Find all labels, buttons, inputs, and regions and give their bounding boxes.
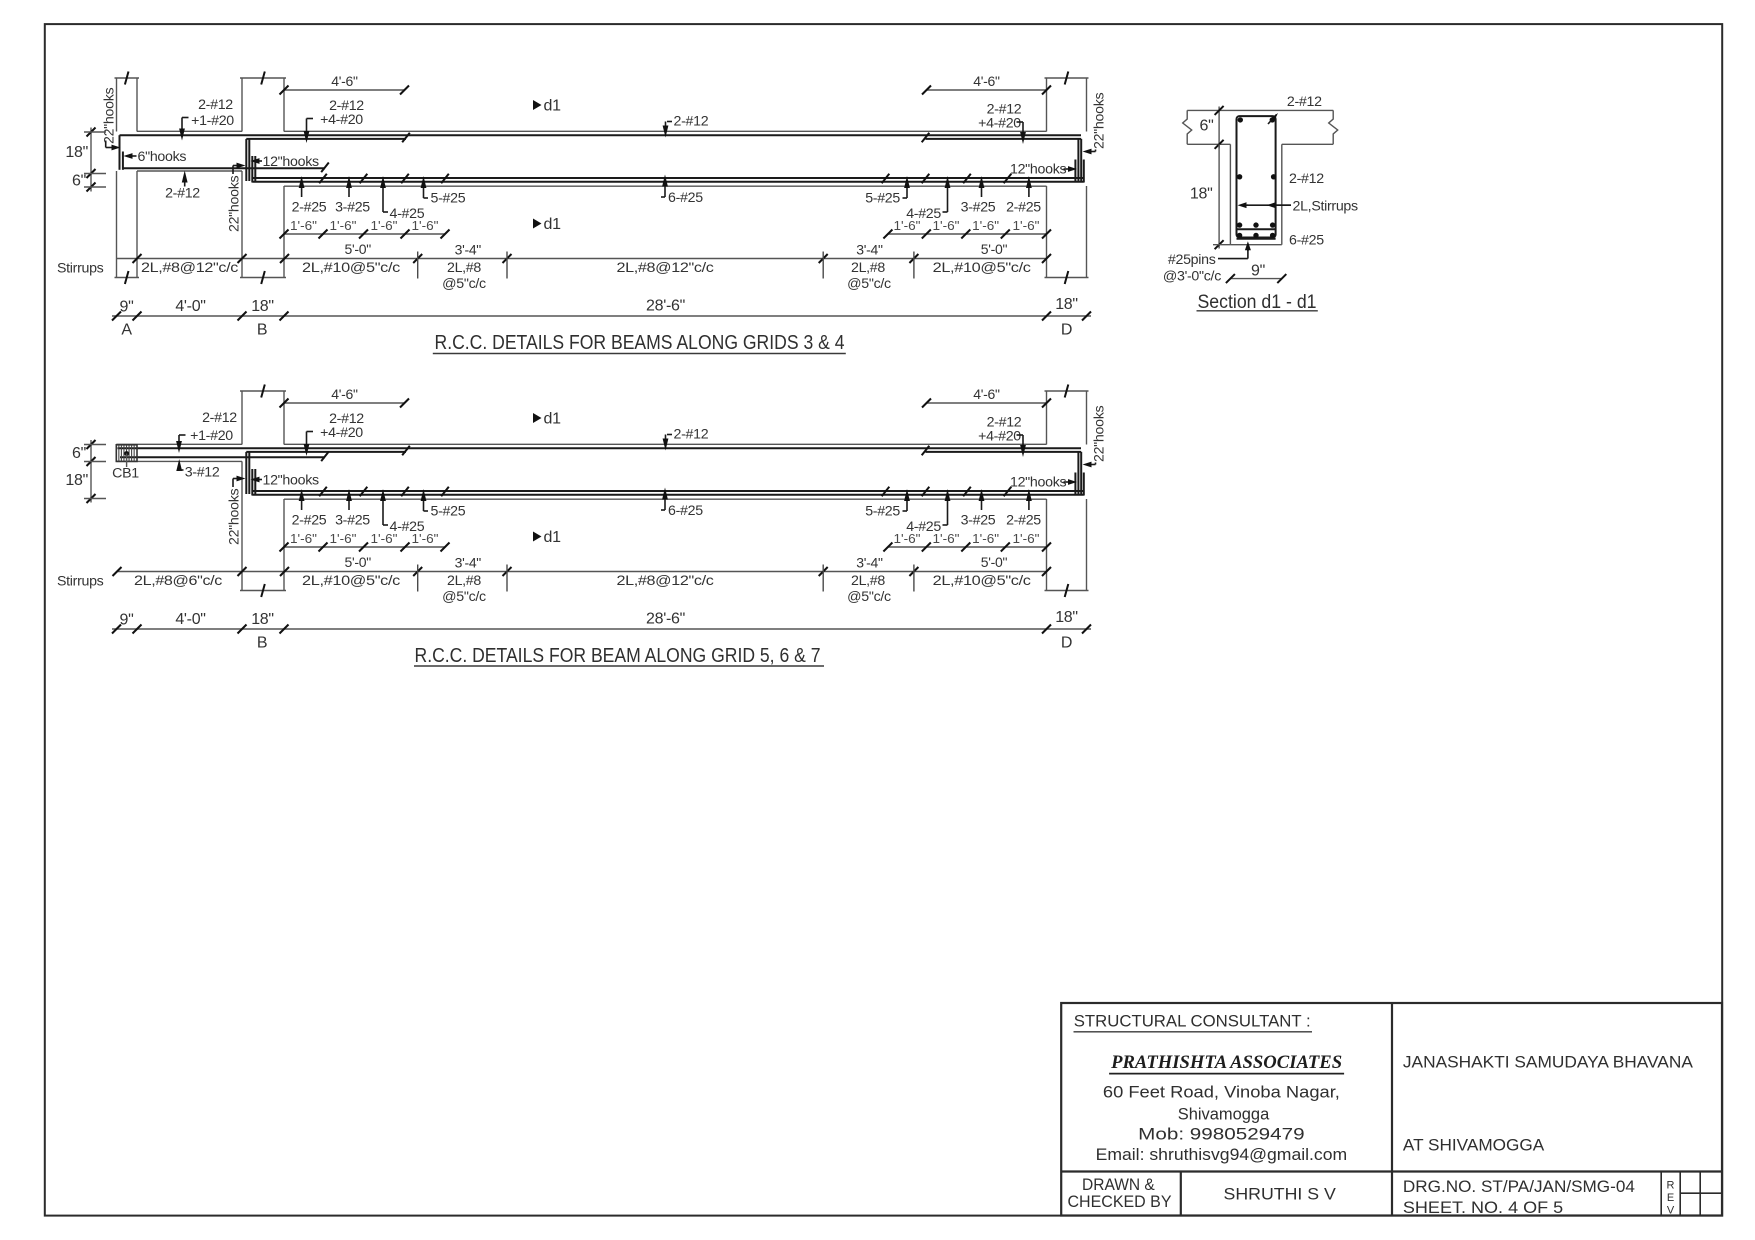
svg-text:18": 18" (1055, 609, 1078, 626)
svg-text:1'-6": 1'-6" (972, 532, 999, 546)
svg-text:1'-6": 1'-6" (371, 219, 398, 233)
svg-text:2L,Stirrups: 2L,Stirrups (1293, 199, 1359, 215)
svg-text:SHRUTHI S V: SHRUTHI S V (1224, 1185, 1337, 1204)
svg-text:2-#25: 2-#25 (1006, 513, 1041, 529)
svg-text:12"hooks: 12"hooks (263, 154, 319, 170)
svg-text:3'-4": 3'-4" (455, 555, 482, 571)
svg-text:6-#25: 6-#25 (668, 503, 703, 519)
svg-text:Email: shruthisvg94@gmail.com: Email: shruthisvg94@gmail.com (1096, 1145, 1348, 1164)
svg-text:@5"c/c: @5"c/c (442, 589, 486, 605)
svg-text:1'-6": 1'-6" (933, 219, 960, 233)
svg-text:Stirrups: Stirrups (57, 574, 104, 590)
svg-text:18": 18" (1055, 296, 1078, 313)
svg-text:2L,#8@6"c/c: 2L,#8@6"c/c (134, 573, 222, 589)
svg-text:1'-6": 1'-6" (290, 532, 317, 546)
svg-text:1'-6": 1'-6" (1013, 219, 1040, 233)
svg-text:2L,#8: 2L,#8 (851, 260, 885, 276)
svg-text:1'-6": 1'-6" (894, 219, 921, 233)
svg-text:1'-6": 1'-6" (972, 219, 999, 233)
svg-text:+4-#20: +4-#20 (320, 112, 363, 128)
svg-text:D: D (1061, 322, 1072, 339)
svg-text:V: V (1667, 1205, 1675, 1217)
svg-text:1'-6": 1'-6" (412, 532, 439, 546)
svg-text:d1: d1 (544, 98, 562, 115)
svg-text:@5"c/c: @5"c/c (847, 589, 891, 605)
svg-text:2-#12: 2-#12 (165, 186, 200, 202)
svg-text:1'-6": 1'-6" (330, 219, 357, 233)
svg-text:CHECKED BY: CHECKED BY (1068, 1192, 1172, 1211)
svg-text:18": 18" (1190, 185, 1213, 202)
svg-text:1'-6": 1'-6" (371, 532, 398, 546)
svg-text:+1-#20: +1-#20 (191, 113, 234, 129)
svg-text:2L,#8: 2L,#8 (447, 260, 481, 276)
svg-text:5-#25: 5-#25 (865, 191, 900, 207)
svg-text:12"hooks: 12"hooks (1010, 475, 1066, 491)
svg-text:1'-6": 1'-6" (1013, 532, 1040, 546)
svg-text:18": 18" (65, 144, 88, 161)
svg-text:@3'-0"c/c: @3'-0"c/c (1163, 269, 1221, 285)
svg-text:5'-0": 5'-0" (345, 554, 372, 570)
svg-text:4'-6": 4'-6" (973, 386, 1000, 402)
svg-text:2L,#8@12"c/c: 2L,#8@12"c/c (141, 260, 238, 276)
svg-text:AT SHIVAMOGGA: AT SHIVAMOGGA (1403, 1136, 1545, 1155)
svg-text:E: E (1667, 1192, 1674, 1204)
svg-text:4'-6": 4'-6" (331, 73, 358, 89)
svg-text:2L,#8: 2L,#8 (447, 573, 481, 589)
svg-text:5'-0": 5'-0" (345, 241, 372, 257)
svg-text:PRATHISHTA ASSOCIATES: PRATHISHTA ASSOCIATES (1110, 1052, 1342, 1073)
svg-text:+1-#20: +1-#20 (190, 428, 233, 444)
svg-text:5'-0": 5'-0" (981, 241, 1008, 257)
svg-text:2-#25: 2-#25 (292, 200, 327, 216)
svg-text:DRG.NO. ST/PA/JAN/SMG-04: DRG.NO. ST/PA/JAN/SMG-04 (1403, 1177, 1635, 1196)
svg-text:18": 18" (251, 298, 274, 315)
svg-text:B: B (257, 635, 267, 652)
svg-text:6": 6" (72, 445, 86, 462)
svg-text:2L,#8@12"c/c: 2L,#8@12"c/c (617, 573, 714, 589)
svg-text:9": 9" (120, 299, 134, 316)
svg-text:#25pins: #25pins (1168, 252, 1216, 268)
svg-text:2-#12: 2-#12 (674, 114, 709, 130)
svg-text:2-#12: 2-#12 (1289, 171, 1324, 187)
svg-text:6": 6" (1200, 118, 1214, 135)
svg-text:2L,#10@5"c/c: 2L,#10@5"c/c (302, 260, 400, 276)
svg-text:@5"c/c: @5"c/c (442, 276, 486, 292)
svg-text:Shivamogga: Shivamogga (1178, 1104, 1270, 1123)
svg-text:R.C.C. DETAILS FOR BEAM ALONG: R.C.C. DETAILS FOR BEAM ALONG GRID 5, 6 … (415, 645, 821, 667)
svg-text:22"hooks: 22"hooks (1092, 93, 1108, 149)
svg-text:1'-6": 1'-6" (412, 219, 439, 233)
svg-text:12"hooks: 12"hooks (263, 473, 319, 489)
svg-text:2-#25: 2-#25 (292, 513, 327, 529)
svg-text:SHEET. NO. 4 OF 5: SHEET. NO. 4 OF 5 (1403, 1198, 1563, 1217)
svg-text:3-#12: 3-#12 (185, 465, 220, 481)
svg-text:1'-6": 1'-6" (290, 219, 317, 233)
svg-text:+4-#20: +4-#20 (320, 425, 363, 441)
svg-text:3-#25: 3-#25 (961, 513, 996, 529)
svg-text:Mob: 9980529479: Mob: 9980529479 (1138, 1124, 1304, 1143)
svg-text:3-#25: 3-#25 (335, 513, 370, 529)
svg-text:4'-0": 4'-0" (175, 611, 205, 628)
svg-text:1'-6": 1'-6" (933, 532, 960, 546)
svg-text:Section d1 - d1: Section d1 - d1 (1198, 292, 1317, 313)
svg-text:B: B (257, 322, 267, 339)
svg-text:+4-#20: +4-#20 (978, 429, 1021, 445)
svg-text:3'-4": 3'-4" (856, 555, 883, 571)
svg-text:Stirrups: Stirrups (57, 261, 104, 277)
svg-text:18": 18" (251, 611, 274, 628)
svg-text:@5"c/c: @5"c/c (847, 276, 891, 292)
svg-text:5-#25: 5-#25 (431, 504, 466, 520)
svg-text:JANASHAKTI SAMUDAYA BHAVANA: JANASHAKTI SAMUDAYA BHAVANA (1403, 1053, 1694, 1072)
svg-text:d1: d1 (544, 411, 562, 428)
svg-text:60 Feet Road, Vinoba Nagar,: 60 Feet Road, Vinoba Nagar, (1103, 1083, 1340, 1102)
svg-text:A: A (121, 322, 132, 339)
svg-text:1'-6": 1'-6" (894, 532, 921, 546)
svg-text:9": 9" (120, 612, 134, 629)
svg-text:22"hooks: 22"hooks (102, 88, 118, 144)
svg-text:22"hooks: 22"hooks (1092, 406, 1108, 462)
svg-text:2L,#10@5"c/c: 2L,#10@5"c/c (302, 573, 400, 589)
svg-text:6"hooks: 6"hooks (138, 149, 187, 165)
svg-text:4'-6": 4'-6" (331, 386, 358, 402)
svg-text:6": 6" (72, 173, 86, 190)
svg-text:12"hooks: 12"hooks (1010, 162, 1066, 178)
svg-text:28'-6": 28'-6" (646, 298, 685, 315)
svg-text:R: R (1667, 1180, 1675, 1192)
svg-text:2-#12: 2-#12 (198, 97, 233, 113)
svg-text:2-#12: 2-#12 (674, 427, 709, 443)
svg-text:2-#12: 2-#12 (1287, 94, 1322, 110)
svg-text:2-#12: 2-#12 (202, 410, 237, 426)
svg-text:4'-0": 4'-0" (175, 298, 205, 315)
svg-text:5-#25: 5-#25 (431, 191, 466, 207)
svg-text:6-#25: 6-#25 (668, 190, 703, 206)
svg-text:3-#25: 3-#25 (961, 200, 996, 216)
svg-text:5'-0": 5'-0" (981, 554, 1008, 570)
svg-text:6-#25: 6-#25 (1289, 233, 1324, 249)
svg-text:2L,#8: 2L,#8 (851, 573, 885, 589)
svg-text:2L,#8@12"c/c: 2L,#8@12"c/c (617, 260, 714, 276)
svg-text:2-#25: 2-#25 (1006, 200, 1041, 216)
svg-text:D: D (1061, 635, 1072, 652)
svg-text:+4-#20: +4-#20 (978, 116, 1021, 132)
svg-text:3-#25: 3-#25 (335, 200, 370, 216)
svg-text:5-#25: 5-#25 (865, 504, 900, 520)
svg-text:1'-6": 1'-6" (330, 532, 357, 546)
svg-text:18": 18" (65, 472, 88, 489)
svg-text:9": 9" (1251, 263, 1265, 280)
svg-text:3'-4": 3'-4" (856, 242, 883, 258)
svg-text:22"hooks: 22"hooks (227, 176, 243, 232)
svg-text:d1: d1 (544, 529, 562, 546)
svg-text:2L,#10@5"c/c: 2L,#10@5"c/c (933, 573, 1031, 589)
svg-text:3'-4": 3'-4" (455, 242, 482, 258)
svg-text:4'-6": 4'-6" (973, 73, 1000, 89)
svg-text:d1: d1 (544, 216, 562, 233)
svg-text:28'-6": 28'-6" (646, 611, 685, 628)
svg-text:22"hooks: 22"hooks (227, 489, 243, 545)
svg-text:CB1: CB1 (112, 466, 139, 482)
svg-text:2L,#10@5"c/c: 2L,#10@5"c/c (933, 260, 1031, 276)
svg-text:R.C.C. DETAILS FOR BEAMS ALONG: R.C.C. DETAILS FOR BEAMS ALONG GRIDS 3 &… (435, 332, 845, 354)
svg-text:STRUCTURAL CONSULTANT :: STRUCTURAL CONSULTANT : (1074, 1011, 1311, 1030)
